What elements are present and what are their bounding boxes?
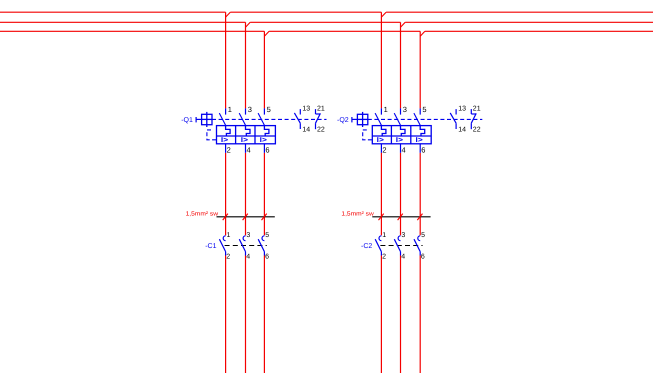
cable W1 line: [217, 216, 275, 218]
svg-text:6: 6: [421, 145, 425, 154]
breaker Q1 aux NC contact 21-22: [316, 109, 321, 129]
breaker Q1 pole pin 1 stub: [225, 108, 227, 114]
cable W2 line: [372, 216, 430, 218]
wire phase 3 group 2 upper segment: [419, 31, 421, 108]
svg-text:-C2: -C2: [361, 243, 372, 250]
svg-text:14: 14: [302, 126, 310, 133]
breaker Q2 lead tick: [351, 117, 353, 122]
breaker Q1 pole pin 6 stub: [263, 144, 265, 153]
breaker Q1 pole pin 2 stub: [225, 144, 227, 153]
power rail L2: [0, 21, 653, 23]
breaker Q2 pole pin 5 stub: [419, 108, 421, 114]
breaker Q2 coupling dashed line: [368, 118, 483, 120]
breaker Q1 pole contact blade: [219, 113, 225, 125]
svg-text:I>: I>: [377, 137, 384, 144]
svg-text:1,5mm² sw: 1,5mm² sw: [186, 210, 219, 217]
breaker Q2 aux NC contact 21-22: [471, 109, 476, 129]
contactor C1 main contact pin 5: [258, 236, 264, 256]
wire phase 1 group 2 upper segment: [380, 12, 382, 108]
breaker Q2 thermal element pole 3: [420, 126, 425, 136]
power rail L3: [0, 30, 653, 32]
svg-text:4: 4: [247, 145, 251, 154]
svg-text:5: 5: [422, 105, 426, 114]
wire phase 3 group 2 middle segment: [419, 153, 421, 236]
breaker Q2 pole pin 2 stub: [380, 144, 382, 153]
breaker Q2 aux NO contact 13-14: [450, 109, 456, 129]
wire phase 1 group 1 middle segment: [225, 153, 227, 236]
svg-text:1: 1: [227, 232, 231, 239]
breaker Q2 thermal element pole 2: [401, 126, 406, 136]
svg-text:1: 1: [384, 105, 388, 114]
svg-text:14: 14: [458, 126, 466, 133]
breaker Q1 coupling dashed line: [212, 118, 327, 120]
contactor C2 coupling dashed line: [380, 245, 422, 247]
breaker Q2 pole contact blade: [375, 113, 381, 125]
svg-text:21: 21: [317, 106, 325, 113]
breaker Q2 pole pin 6 stub: [419, 144, 421, 153]
svg-text:6: 6: [421, 253, 425, 260]
breaker Q1 pole pin 3 stub: [245, 108, 247, 114]
svg-text:2: 2: [227, 145, 231, 154]
wire phase 3 group 2 lower segment: [419, 256, 421, 373]
breaker Q1 pole contact blade: [239, 113, 245, 125]
wire phase 1 group 2 lower segment: [380, 256, 382, 373]
junction corner at rail L2 x=246: [246, 22, 251, 27]
svg-text:13: 13: [302, 106, 310, 113]
svg-text:4: 4: [246, 253, 250, 260]
svg-text:-Q2: -Q2: [337, 117, 349, 124]
svg-text:I>: I>: [260, 137, 267, 144]
breaker Q1 aux NO contact 13-14: [294, 109, 300, 129]
svg-text:21: 21: [473, 106, 481, 113]
svg-text:6: 6: [265, 145, 269, 154]
contactor C1 main contact pin 1: [219, 236, 225, 256]
breaker Q1 lead line: [196, 118, 202, 120]
svg-text:2: 2: [382, 253, 386, 260]
wire phase 2 group 1 lower segment: [245, 256, 247, 373]
svg-text:3: 3: [403, 105, 407, 114]
breaker Q1 thermal element pole 2: [246, 126, 251, 136]
contactor C2 main contact pin 5: [414, 236, 420, 256]
breaker Q2 trip linkage dashed: [363, 130, 373, 140]
breaker Q1 pole contact blade: [258, 113, 264, 125]
breaker Q2 pole pin 4 stub: [400, 144, 402, 153]
wire phase 3 group 1 upper segment: [263, 31, 265, 108]
wire phase 2 group 1 middle segment: [245, 153, 247, 236]
wire phase 3 group 1 middle segment: [263, 153, 265, 236]
breaker Q2 pole pin 3 stub: [400, 108, 402, 114]
wire phase 1 group 1 lower segment: [225, 256, 227, 373]
breaker Q1 trip linkage dashed: [207, 130, 217, 140]
wire phase 2 group 2 upper segment: [400, 22, 402, 108]
contactor C1 main contact pin 3: [239, 236, 245, 256]
svg-text:1,5mm² sw: 1,5mm² sw: [341, 210, 374, 217]
power rail L1: [0, 11, 653, 13]
svg-text:-Q1: -Q1: [181, 117, 193, 124]
svg-text:3: 3: [246, 232, 250, 239]
cable W1 conductor slash 2: [243, 214, 248, 221]
svg-text:4: 4: [401, 253, 405, 260]
breaker Q2 pole pin 1 stub: [380, 108, 382, 114]
breaker Q1 thermal element pole 3: [264, 126, 269, 136]
wire phase 2 group 2 lower segment: [400, 256, 402, 373]
breaker Q1 overload box: [217, 126, 276, 144]
breaker Q1 manual operator: [202, 112, 212, 127]
wire phase 2 group 2 middle segment: [400, 153, 402, 236]
cable W2 conductor slash 3: [417, 214, 422, 221]
svg-text:6: 6: [265, 253, 269, 260]
svg-text:-C1: -C1: [205, 243, 216, 250]
svg-text:I>: I>: [241, 137, 248, 144]
breaker Q1 lead tick: [195, 117, 197, 122]
svg-text:22: 22: [317, 127, 325, 134]
svg-text:2: 2: [382, 145, 386, 154]
contactor C1 coupling dashed line: [225, 245, 267, 247]
svg-text:I>: I>: [221, 137, 228, 144]
wire phase 2 group 1 upper segment: [245, 22, 247, 108]
cable W2 conductor slash 1: [379, 214, 384, 221]
junction corner at rail L1 x=226: [226, 12, 231, 17]
cable W2 conductor slash 2: [398, 214, 403, 221]
svg-text:22: 22: [473, 127, 481, 134]
breaker Q2 manual operator: [357, 112, 367, 127]
breaker Q1 pole pin 5 stub: [263, 108, 265, 114]
breaker Q1 thermal element pole 1: [226, 126, 231, 136]
svg-text:2: 2: [226, 253, 230, 260]
junction corner at rail L1 x=381: [381, 12, 386, 17]
svg-text:1: 1: [228, 105, 232, 114]
svg-text:I>: I>: [416, 137, 423, 144]
breaker Q1 pole pin 4 stub: [245, 144, 247, 153]
svg-text:5: 5: [421, 232, 425, 239]
junction corner at rail L3 x=420: [420, 31, 425, 36]
svg-text:I>: I>: [396, 137, 403, 144]
breaker Q2 overload box: [372, 126, 431, 144]
contactor C2 main contact pin 3: [394, 236, 400, 256]
cable W1 conductor slash 3: [262, 214, 267, 221]
svg-text:3: 3: [248, 105, 252, 114]
breaker Q2 pole contact blade: [414, 113, 420, 125]
breaker Q2 thermal element pole 1: [381, 126, 386, 136]
svg-text:3: 3: [401, 232, 405, 239]
svg-text:5: 5: [265, 232, 269, 239]
contactor C2 main contact pin 1: [375, 236, 381, 256]
breaker Q2 lead line: [352, 118, 358, 120]
svg-text:4: 4: [402, 145, 406, 154]
svg-text:5: 5: [267, 105, 271, 114]
junction corner at rail L3 x=264: [264, 31, 269, 36]
wire phase 1 group 2 middle segment: [380, 153, 382, 236]
wire phase 3 group 1 lower segment: [263, 256, 265, 373]
junction corner at rail L2 x=400: [401, 22, 406, 27]
svg-text:13: 13: [458, 106, 466, 113]
breaker Q2 pole contact blade: [394, 113, 400, 125]
wire phase 1 group 1 upper segment: [225, 12, 227, 108]
svg-text:1: 1: [382, 232, 386, 239]
cable W1 conductor slash 1: [223, 214, 228, 221]
